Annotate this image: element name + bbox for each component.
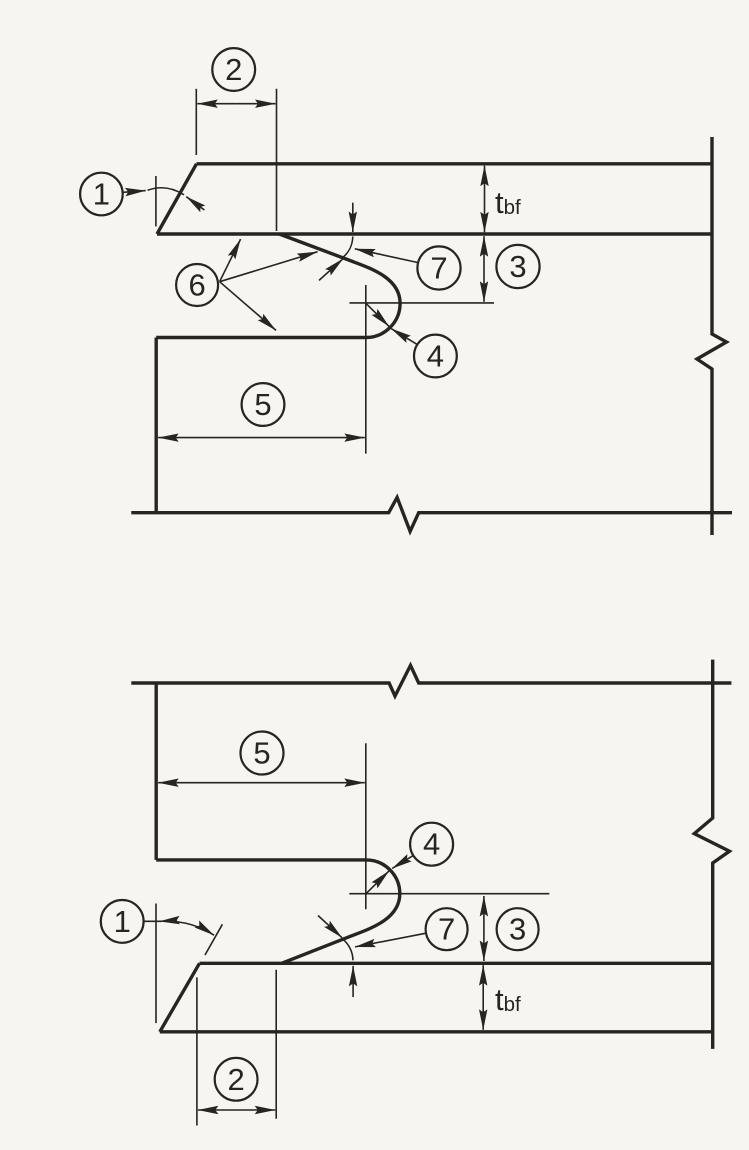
- angle 1 arc: [148, 188, 184, 195]
- svg-text:2: 2: [227, 1062, 244, 1097]
- svg-text:tbf: tbf: [495, 185, 521, 220]
- balloon 3: [496, 245, 539, 288]
- flange end bevel: [157, 164, 197, 234]
- weld access hole profile (slope + radius): [156, 234, 400, 338]
- dim 2 extension line right: [276, 89, 278, 231]
- svg-text:2: 2: [225, 52, 242, 87]
- balloon 1: [80, 173, 123, 216]
- angle 7 up arrow: [352, 966, 354, 997]
- dim 3 arrows: [483, 236, 485, 268]
- dim 5 arrow right: [261, 437, 365, 439]
- beam right edge with break: [694, 660, 729, 1049]
- radius arrow from center: [366, 303, 389, 326]
- svg-text:4: 4: [427, 339, 444, 374]
- dim 2 extension line left: [196, 977, 198, 1125]
- radius vertical centerline: [365, 285, 367, 454]
- radius arrow from center: [366, 871, 389, 894]
- balloon 6 arrows: [220, 239, 241, 282]
- web end (left) edge: [154, 338, 157, 513]
- svg-text:1: 1: [93, 177, 110, 212]
- radius horizontal centerline: [349, 893, 549, 895]
- balloon 5: [242, 383, 285, 426]
- dim 2 arrow left: [197, 103, 236, 105]
- dim 5 arrow left: [158, 437, 261, 439]
- dim 2 arrow right: [236, 103, 275, 105]
- flange bottom line: [157, 232, 712, 235]
- beam right edge with break: [697, 137, 727, 535]
- dim 2 extension line right: [275, 970, 277, 1119]
- balloon 3: [497, 908, 539, 950]
- balloon 7: [417, 246, 460, 289]
- web top line with break: [131, 665, 731, 696]
- angle 1 bevel arrow: [186, 197, 204, 210]
- flange top line: [200, 962, 713, 965]
- balloon 1: [101, 900, 144, 943]
- balloon 1 leader arrow: [123, 191, 146, 193]
- balloon 2: [215, 1058, 258, 1101]
- t_bf dimension arrows: [484, 166, 486, 199]
- flange bottom line: [160, 1030, 712, 1033]
- svg-text:4: 4: [423, 827, 440, 862]
- web bottom line with break: [131, 497, 732, 531]
- web end (left) edge: [154, 683, 157, 860]
- angle 7 down arrow: [352, 203, 354, 232]
- flange top line: [197, 162, 713, 165]
- angle 7 arc: [343, 237, 353, 258]
- svg-text:5: 5: [254, 387, 271, 422]
- svg-text:3: 3: [509, 912, 526, 947]
- balloon 4 leader arrow: [392, 855, 413, 868]
- balloon 7 leader arrow: [355, 249, 418, 263]
- radius vertical centerline: [365, 743, 367, 909]
- balloon 5: [241, 732, 284, 775]
- balloon 1 leader: [144, 920, 161, 922]
- balloon 2: [212, 48, 255, 91]
- svg-text:7: 7: [438, 912, 455, 947]
- angle 1 reference line: [155, 904, 157, 1024]
- dim 3 arrows: [483, 896, 485, 929]
- dim 5 arrow right: [261, 782, 365, 784]
- dim 2 arrow left: [198, 1109, 237, 1111]
- balloon 7 leader arrow: [355, 933, 426, 947]
- dim 2 arrow right: [237, 1109, 276, 1111]
- angle 1 double arrow arc: [159, 921, 214, 935]
- svg-text:5: 5: [253, 736, 270, 771]
- angle 7 slope arrow: [318, 916, 342, 938]
- angle 1 reference line: [155, 176, 157, 226]
- svg-text:3: 3: [509, 249, 526, 284]
- weld access hole profile (radius + slope): [156, 860, 400, 963]
- flange end bevel: [160, 963, 200, 1032]
- dim 5 arrow left: [158, 782, 261, 784]
- svg-text:6: 6: [188, 268, 205, 303]
- svg-text:7: 7: [430, 251, 447, 286]
- balloon 4 leader arrow: [391, 329, 417, 345]
- balloon 6: [176, 264, 218, 306]
- balloon 7: [426, 908, 468, 950]
- t_bf dimension arrows: [482, 965, 484, 997]
- svg-text:tbf: tbf: [495, 982, 521, 1017]
- svg-text:1: 1: [114, 904, 131, 939]
- angle 1 bevel tick: [205, 924, 222, 955]
- angle 7 slope arrow: [319, 259, 343, 281]
- balloon 4: [410, 823, 453, 866]
- dim 2 extension line left: [195, 89, 197, 155]
- balloon 4: [414, 335, 457, 378]
- radius horizontal centerline: [350, 302, 495, 304]
- angle 7 arc: [342, 939, 353, 961]
